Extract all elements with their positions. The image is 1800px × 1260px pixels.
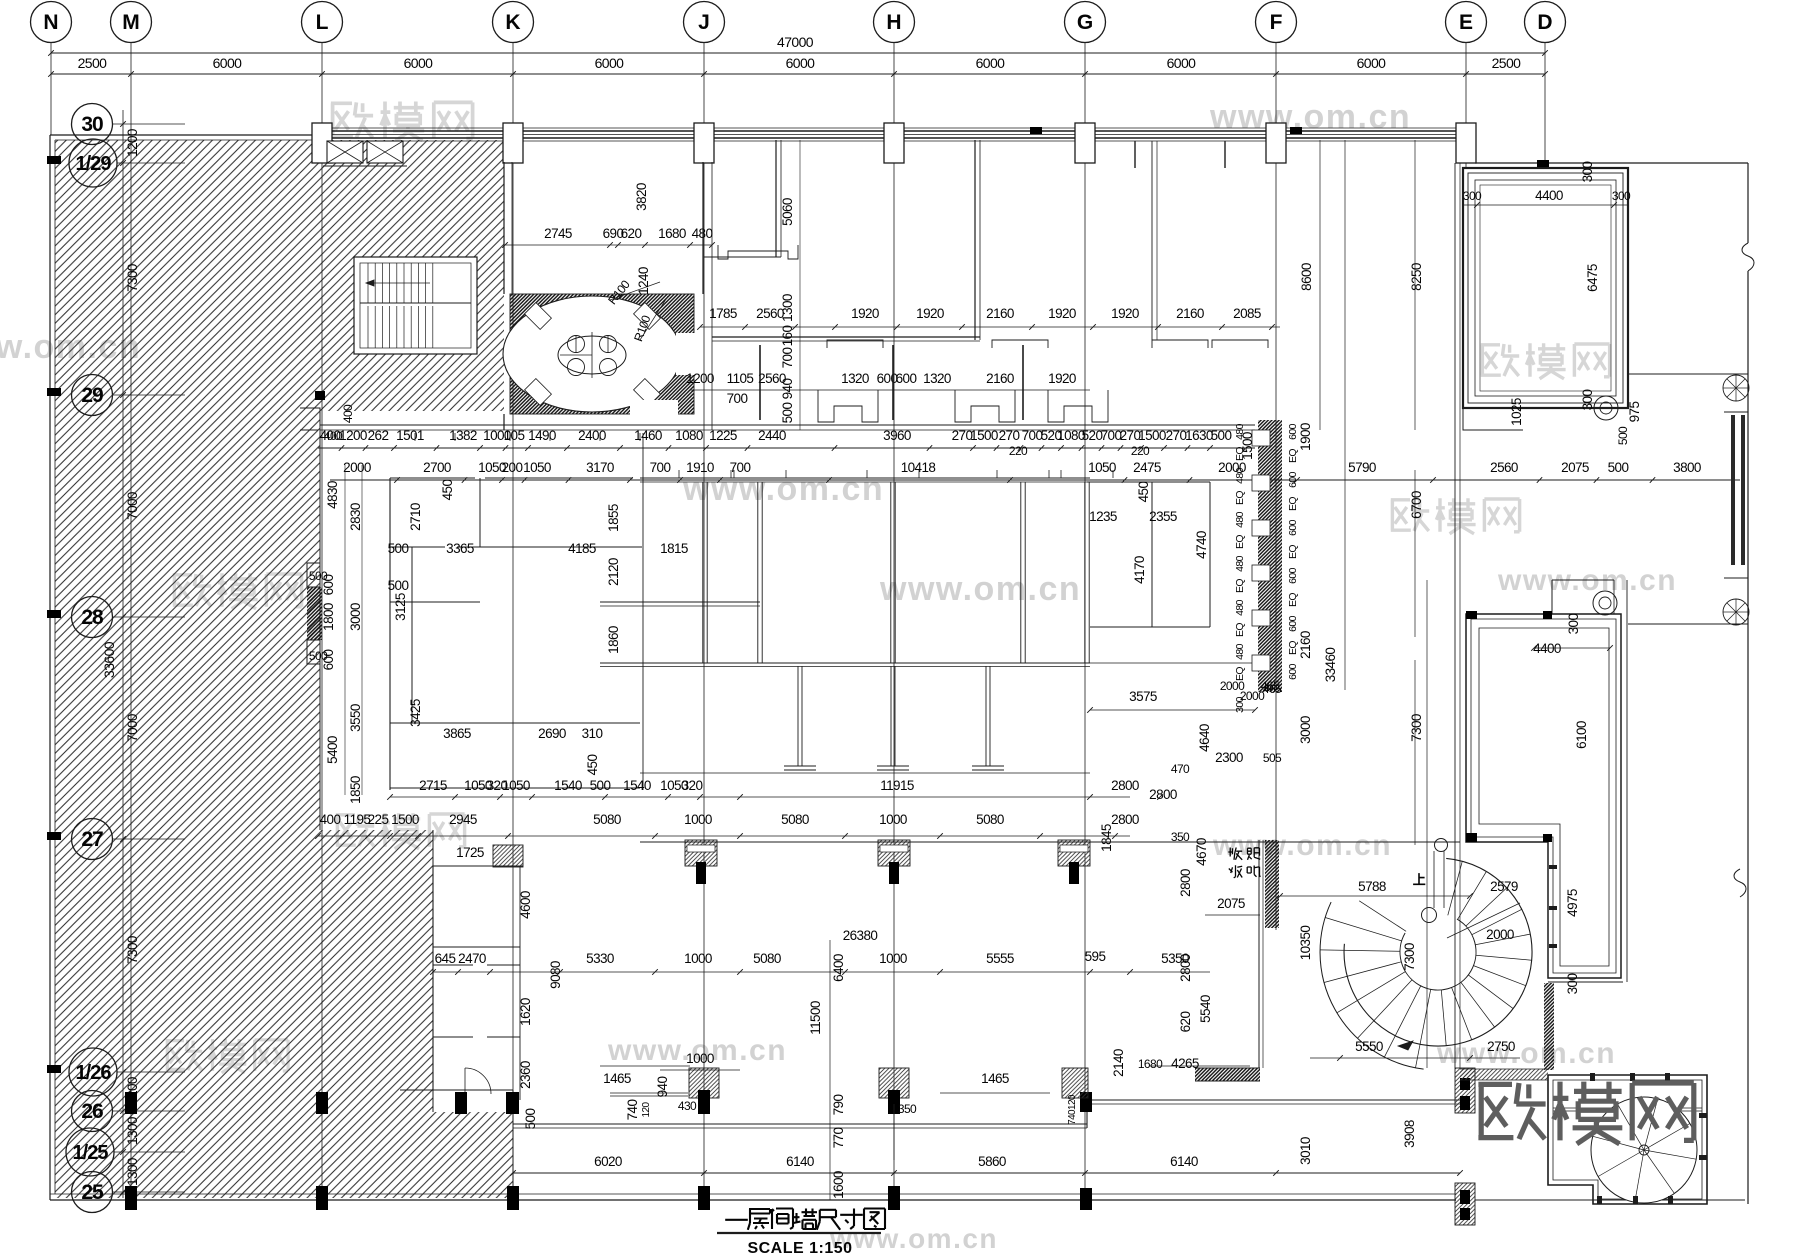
svg-text:500: 500 — [1616, 426, 1630, 445]
svg-text:1050: 1050 — [1088, 460, 1116, 475]
dim row J — [318, 831, 1130, 833]
svg-text:6000: 6000 — [595, 55, 625, 71]
svg-text:10350: 10350 — [1298, 926, 1313, 961]
svg-text:120: 120 — [641, 1102, 652, 1118]
svg-text:3550: 3550 — [348, 704, 363, 732]
top area walls — [775, 140, 777, 257]
svg-text:645: 645 — [435, 951, 456, 966]
svg-text:2160: 2160 — [1298, 631, 1313, 659]
svg-text:3425: 3425 — [408, 699, 423, 727]
cashier text 收银/水吧 — [1228, 848, 1242, 860]
lower-left rooms — [432, 830, 434, 1112]
svg-text:5790: 5790 — [1348, 460, 1376, 475]
elevators — [327, 141, 363, 163]
svg-text:2085: 2085 — [1233, 306, 1261, 321]
watermarks — [331, 102, 373, 137]
svg-text:700: 700 — [730, 460, 751, 475]
title — [725, 1219, 748, 1221]
svg-text:500: 500 — [523, 1109, 538, 1130]
box1 bottom walls — [1463, 407, 1628, 409]
svg-text:M: M — [122, 11, 140, 34]
svg-text:4265: 4265 — [1171, 1056, 1199, 1071]
svg-text:220: 220 — [1131, 444, 1150, 458]
svg-text:3800: 3800 — [1673, 460, 1701, 475]
svg-text:3010: 3010 — [1298, 1137, 1313, 1165]
cashier wall — [1265, 840, 1279, 928]
svg-text:3865: 3865 — [443, 726, 471, 741]
svg-text:1850: 1850 — [348, 776, 363, 804]
right dim verticals — [1319, 140, 1321, 430]
top room stubs — [1134, 141, 1136, 168]
svg-text:8600: 8600 — [1299, 263, 1314, 291]
svg-text:200: 200 — [502, 460, 523, 475]
svg-text:450: 450 — [585, 755, 600, 776]
dim row B — [330, 479, 1740, 481]
stair — [354, 257, 477, 354]
svg-text:310: 310 — [582, 726, 603, 741]
svg-text:320: 320 — [682, 778, 703, 793]
svg-text:5330: 5330 — [586, 951, 614, 966]
svg-text:33460: 33460 — [1323, 648, 1338, 683]
svg-text:SCALE 1:150: SCALE 1:150 — [747, 1240, 852, 1257]
door — [465, 1068, 491, 1094]
svg-text:5555: 5555 — [986, 951, 1014, 966]
svg-text:480: 480 — [1234, 555, 1246, 571]
svg-text:3000: 3000 — [348, 603, 363, 631]
svg-text:2830: 2830 — [348, 503, 363, 531]
svg-text:5550: 5550 — [1355, 1039, 1383, 1054]
east boundary — [1475, 162, 1748, 164]
svg-text:400: 400 — [341, 404, 355, 423]
svg-text:700: 700 — [650, 460, 671, 475]
svg-text:1920: 1920 — [851, 306, 879, 321]
svg-text:4975: 4975 — [1565, 889, 1580, 917]
svg-text:1855: 1855 — [606, 504, 621, 532]
svg-text:300: 300 — [1463, 189, 1482, 203]
svg-text:6000: 6000 — [976, 55, 1006, 71]
svg-text:6000: 6000 — [1357, 55, 1387, 71]
svg-text:600: 600 — [1287, 519, 1299, 535]
svg-text:1000: 1000 — [879, 812, 907, 827]
svg-text:480: 480 — [1234, 467, 1246, 483]
svg-text:2715: 2715 — [419, 778, 447, 793]
svg-text:EQ: EQ — [1234, 535, 1246, 549]
svg-text:480: 480 — [1234, 423, 1246, 439]
svg-text:620: 620 — [621, 226, 642, 241]
svg-text:25: 25 — [81, 1181, 104, 1204]
svg-text:790: 790 — [831, 1095, 846, 1116]
left dim chain — [122, 110, 124, 1198]
svg-text:1725: 1725 — [456, 845, 484, 860]
svg-text:3365: 3365 — [446, 541, 474, 556]
north wall — [313, 127, 1475, 129]
dim row L — [513, 1172, 1460, 1174]
svg-text:6100: 6100 — [1574, 721, 1589, 749]
svg-text:2560: 2560 — [758, 371, 786, 386]
svg-text:2500: 2500 — [1492, 55, 1522, 71]
svg-text:2160: 2160 — [986, 306, 1014, 321]
svg-text:2800: 2800 — [1111, 812, 1139, 827]
fan circle — [1591, 1097, 1697, 1203]
svg-text:1000: 1000 — [879, 951, 907, 966]
svg-text:3170: 3170 — [586, 460, 614, 475]
svg-text:5350: 5350 — [1161, 951, 1189, 966]
svg-text:2800: 2800 — [1149, 787, 1177, 802]
svg-text:7000: 7000 — [125, 714, 140, 742]
svg-text:6000: 6000 — [213, 55, 243, 71]
svg-text:5788: 5788 — [1358, 879, 1386, 894]
svg-text:505: 505 — [1263, 751, 1282, 765]
svg-text:700: 700 — [727, 391, 748, 406]
grid vertical lines — [50, 42, 52, 135]
svg-text:2000: 2000 — [1220, 679, 1245, 693]
svg-text:www.om.cn: www.om.cn — [879, 570, 1081, 608]
svg-text:500: 500 — [388, 578, 409, 593]
svg-text:47000: 47000 — [777, 34, 814, 50]
svg-text:1920: 1920 — [916, 306, 944, 321]
svg-text:4740: 4740 — [1194, 531, 1209, 559]
svg-text:7000: 7000 — [125, 492, 140, 520]
svg-text:1600: 1600 — [831, 1171, 846, 1199]
svg-text:600: 600 — [1287, 663, 1299, 679]
svg-text:5400: 5400 — [325, 736, 340, 764]
sawtooth wall — [1258, 420, 1282, 692]
curtain wall — [1731, 415, 1735, 565]
svg-text:2560: 2560 — [1490, 460, 1518, 475]
svg-text:940: 940 — [655, 1077, 670, 1098]
svg-text:1900: 1900 — [1298, 423, 1313, 451]
svg-text:600: 600 — [896, 371, 917, 386]
svg-text:1785: 1785 — [709, 306, 737, 321]
svg-text:1800: 1800 — [321, 603, 336, 631]
svg-text:1920: 1920 — [1048, 371, 1076, 386]
svg-text:EQ: EQ — [1234, 579, 1246, 593]
svg-text:300: 300 — [1580, 390, 1595, 411]
svg-text:3125: 3125 — [393, 593, 408, 621]
small top niches — [718, 245, 798, 259]
svg-text:500: 500 — [1608, 460, 1629, 475]
svg-text:www.om.cn: www.om.cn — [682, 470, 884, 508]
svg-text:5080: 5080 — [753, 951, 781, 966]
svg-text:1195: 1195 — [344, 812, 371, 827]
svg-text:1910: 1910 — [686, 460, 714, 475]
svg-text:350: 350 — [898, 1102, 917, 1116]
wall under piers — [640, 841, 1460, 843]
oval table — [558, 336, 626, 374]
svg-text:480: 480 — [1234, 643, 1246, 659]
svg-text:5060: 5060 — [780, 198, 795, 226]
svg-text:1200: 1200 — [125, 129, 140, 157]
svg-text:300: 300 — [1565, 974, 1580, 995]
hatch main left area — [55, 140, 320, 1198]
svg-text:2355: 2355 — [1149, 509, 1177, 524]
svg-text:740120: 740120 — [1067, 1094, 1078, 1125]
svg-text:1235: 1235 — [1089, 509, 1117, 524]
svg-text:2690: 2690 — [538, 726, 566, 741]
svg-text:K: K — [505, 11, 520, 34]
svg-text:600: 600 — [877, 371, 898, 386]
svg-text:EQ: EQ — [1234, 447, 1246, 461]
svg-text:1845: 1845 — [1099, 824, 1114, 852]
svg-text:975: 975 — [1627, 402, 1642, 423]
svg-text:2945: 2945 — [449, 812, 477, 827]
svg-text:2160: 2160 — [986, 371, 1014, 386]
south walls — [513, 1123, 1087, 1125]
svg-text:6000: 6000 — [786, 55, 816, 71]
left rooms walls — [415, 433, 455, 441]
svg-text:480: 480 — [1234, 511, 1246, 527]
svg-text:1050: 1050 — [523, 460, 551, 475]
vestibule room — [503, 162, 505, 294]
svg-text:EQ: EQ — [1234, 491, 1246, 505]
svg-text:4400: 4400 — [1533, 641, 1561, 656]
svg-text:D: D — [1537, 11, 1552, 34]
svg-text:11915: 11915 — [880, 778, 914, 793]
svg-text:430: 430 — [678, 1099, 697, 1113]
svg-text:7300: 7300 — [125, 264, 140, 292]
svg-text:620: 620 — [1178, 1012, 1193, 1033]
svg-text:480: 480 — [1234, 599, 1246, 615]
svg-text:1860: 1860 — [606, 626, 621, 654]
hatch boundary lines — [319, 425, 321, 830]
svg-text:1620: 1620 — [518, 998, 533, 1026]
dim row K — [433, 971, 1210, 973]
svg-text:EQ: EQ — [1287, 545, 1299, 559]
svg-text:2800: 2800 — [1111, 778, 1139, 793]
svg-text:2475: 2475 — [1133, 460, 1161, 475]
svg-text:1300: 1300 — [125, 1158, 140, 1186]
svg-text:5080: 5080 — [781, 812, 809, 827]
spiral stair — [1344, 858, 1532, 1046]
svg-text:600: 600 — [321, 650, 336, 671]
svg-text:740: 740 — [625, 1100, 640, 1121]
svg-text:2075: 2075 — [1561, 460, 1589, 475]
dim row C — [700, 326, 1280, 328]
svg-text:1540: 1540 — [623, 778, 651, 793]
svg-text:6140: 6140 — [1170, 1154, 1198, 1169]
room 4170 — [1087, 481, 1210, 483]
svg-text:770: 770 — [831, 1128, 846, 1149]
svg-text:1320: 1320 — [923, 371, 951, 386]
svg-text:480: 480 — [692, 226, 713, 241]
svg-text:595: 595 — [1085, 949, 1106, 964]
svg-text:27: 27 — [81, 828, 103, 851]
svg-text:E: E — [1459, 11, 1473, 34]
svg-text:26: 26 — [81, 1100, 103, 1123]
svg-text:6020: 6020 — [594, 1154, 622, 1169]
svg-text:500: 500 — [388, 541, 409, 556]
entry piers — [1455, 1068, 1475, 1113]
svg-text:450: 450 — [440, 480, 455, 501]
svg-text:5080: 5080 — [593, 812, 621, 827]
svg-text:3820: 3820 — [634, 183, 649, 211]
svg-text:L: L — [316, 11, 329, 34]
right room box2 (L-shaped) — [1466, 614, 1621, 978]
svg-text:2000: 2000 — [343, 460, 371, 475]
svg-text:8250: 8250 — [1409, 263, 1424, 291]
svg-text:2800: 2800 — [1178, 869, 1193, 897]
bottom-right box — [1548, 1075, 1707, 1204]
svg-text:F: F — [1270, 11, 1283, 34]
svg-text:1540: 1540 — [554, 778, 582, 793]
svg-text:7300: 7300 — [1409, 714, 1424, 742]
svg-text:2745: 2745 — [544, 226, 572, 241]
svg-text:1200: 1200 — [686, 371, 714, 386]
svg-text:600: 600 — [1287, 471, 1299, 487]
svg-text:26380: 26380 — [843, 928, 878, 943]
svg-text:2710: 2710 — [408, 503, 423, 531]
svg-text:6140: 6140 — [786, 1154, 814, 1169]
svg-text:160: 160 — [780, 326, 795, 347]
svg-text:1815: 1815 — [660, 541, 688, 556]
box2 step top right — [1551, 580, 1553, 614]
dim row 6000s — [51, 73, 1545, 75]
svg-text:H: H — [886, 11, 901, 34]
svg-text:3575: 3575 — [1129, 689, 1157, 704]
dim row A — [318, 447, 1255, 449]
grid bubbles top — [31, 2, 72, 43]
svg-text:www.om.cn: www.om.cn — [829, 1223, 998, 1254]
svg-text:EQ: EQ — [1287, 593, 1299, 607]
svg-text:4600: 4600 — [518, 891, 533, 919]
svg-text:3908: 3908 — [1402, 1120, 1417, 1148]
svg-text:5540: 5540 — [1198, 995, 1213, 1023]
svg-text:6000: 6000 — [1167, 55, 1197, 71]
svg-text:2470: 2470 — [458, 951, 486, 966]
svg-text:6700: 6700 — [1409, 491, 1424, 519]
svg-text:1920: 1920 — [1111, 306, 1139, 321]
svg-text:2360: 2360 — [518, 1061, 533, 1089]
svg-text:9080: 9080 — [548, 961, 563, 989]
svg-text:EQ: EQ — [1234, 623, 1246, 637]
svg-text:28: 28 — [81, 606, 104, 629]
svg-text:470: 470 — [1171, 762, 1190, 776]
svg-text:1/25: 1/25 — [73, 1142, 109, 1164]
svg-text:6400: 6400 — [831, 954, 846, 982]
svg-text:EQ: EQ — [1287, 449, 1299, 463]
svg-text:2075: 2075 — [1217, 896, 1245, 911]
dim 2745 row — [505, 244, 712, 246]
svg-text:EQ: EQ — [1287, 497, 1299, 511]
svg-text:www.om.cn: www.om.cn — [1436, 1037, 1616, 1070]
svg-text:5860: 5860 — [978, 1154, 1006, 1169]
svg-text:7300: 7300 — [125, 936, 140, 964]
svg-text:225: 225 — [368, 812, 389, 827]
svg-text:J: J — [698, 11, 710, 34]
svg-text:220: 220 — [1009, 444, 1028, 458]
svg-text:4170: 4170 — [1132, 556, 1147, 584]
svg-text:600: 600 — [1287, 423, 1299, 439]
svg-text:1/26: 1/26 — [76, 1062, 112, 1084]
svg-text:1000: 1000 — [686, 1051, 714, 1066]
svg-text:1000: 1000 — [684, 812, 712, 827]
svg-text:4830: 4830 — [325, 481, 340, 509]
svg-text:2500: 2500 — [78, 55, 108, 71]
svg-text:N: N — [43, 11, 58, 34]
overall dim 47000 — [51, 52, 1545, 54]
svg-text:30: 30 — [81, 113, 103, 136]
niche column left wall — [307, 587, 322, 640]
dim row I — [390, 796, 1130, 798]
svg-text:1465: 1465 — [981, 1071, 1009, 1086]
svg-text:5080: 5080 — [976, 812, 1004, 827]
svg-text:1920: 1920 — [1048, 306, 1076, 321]
interior south verticals — [689, 1068, 719, 1098]
svg-text:4640: 4640 — [1197, 724, 1212, 752]
box2 bottom wall to spiral — [1544, 983, 1554, 1070]
svg-text:4185: 4185 — [568, 541, 596, 556]
svg-text:600: 600 — [321, 575, 336, 596]
grid bubbles left — [72, 104, 113, 145]
svg-text:1300: 1300 — [125, 1117, 140, 1145]
svg-text:1025: 1025 — [1509, 398, 1524, 426]
trees — [1723, 375, 1749, 401]
wall profiles under row E — [818, 390, 878, 422]
svg-text:1050: 1050 — [502, 778, 530, 793]
svg-text:400: 400 — [320, 812, 341, 827]
column symbol — [1594, 396, 1618, 420]
svg-text:450: 450 — [1136, 482, 1151, 503]
svg-text:6475: 6475 — [1585, 264, 1600, 292]
svg-text:2579: 2579 — [1490, 879, 1518, 894]
svg-text:1105: 1105 — [727, 371, 754, 386]
svg-text:G: G — [1077, 11, 1093, 34]
right room box1 — [1463, 168, 1628, 408]
svg-text:2160: 2160 — [1176, 306, 1204, 321]
svg-text:1320: 1320 — [841, 371, 869, 386]
svg-text:500: 500 — [780, 403, 795, 424]
svg-text:1/29: 1/29 — [76, 153, 112, 175]
svg-text:600: 600 — [1287, 567, 1299, 583]
bottom columns — [125, 1186, 137, 1210]
top columns — [312, 123, 332, 163]
svg-text:2700: 2700 — [423, 460, 451, 475]
box ticks — [1597, 1196, 1602, 1204]
svg-text:1240: 1240 — [636, 267, 651, 295]
svg-text:300: 300 — [1566, 614, 1581, 635]
svg-text:2120: 2120 — [606, 558, 621, 586]
svg-text:2000: 2000 — [1486, 927, 1514, 942]
svg-text:700: 700 — [780, 348, 795, 369]
svg-text:300: 300 — [1612, 189, 1631, 203]
svg-text:11500: 11500 — [808, 1001, 823, 1035]
svg-text:3000: 3000 — [1298, 716, 1313, 744]
svg-text:10418: 10418 — [901, 460, 936, 475]
svg-text:2750: 2750 — [1487, 1039, 1515, 1054]
svg-text:2300: 2300 — [1215, 750, 1243, 765]
svg-text:2140: 2140 — [1111, 1049, 1126, 1077]
svg-text:1680: 1680 — [658, 226, 686, 241]
mid piers row — [685, 840, 717, 866]
svg-text:1500: 1500 — [391, 812, 419, 827]
central rooms — [640, 477, 1090, 479]
svg-text:6000: 6000 — [404, 55, 434, 71]
svg-text:1300: 1300 — [780, 294, 795, 322]
svg-text:300: 300 — [1580, 162, 1595, 183]
svg-text:400: 400 — [324, 429, 343, 443]
pier 1725 — [493, 845, 523, 867]
svg-text:1000: 1000 — [684, 951, 712, 966]
svg-text:29: 29 — [81, 384, 103, 407]
big logo — [1478, 1083, 1545, 1139]
oval lobby poche — [510, 294, 694, 414]
svg-text:1680: 1680 — [1138, 1057, 1163, 1071]
window sills bottom — [600, 1065, 690, 1067]
site outline — [50, 134, 313, 136]
threshold lines — [1474, 1080, 1476, 1183]
svg-text:465: 465 — [1261, 679, 1280, 693]
svg-text:7300: 7300 — [1402, 943, 1417, 971]
